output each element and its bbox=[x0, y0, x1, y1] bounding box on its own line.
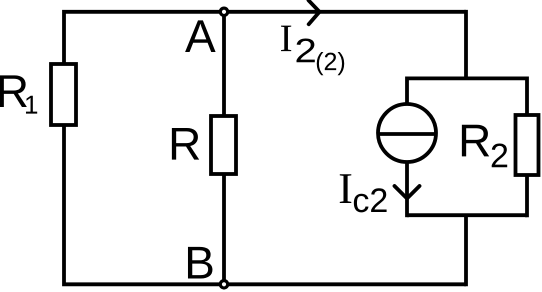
node label B bbox=[188, 247, 212, 279]
label R1 letter bbox=[0, 75, 27, 107]
label R2 subscript 2 bbox=[492, 143, 507, 167]
node B bbox=[220, 281, 227, 288]
label R2 letter bbox=[462, 125, 489, 157]
wire right vertical upper bbox=[464, 10, 468, 79]
label I2 letter I bbox=[281, 26, 291, 52]
arrow head current I2 on top wire bbox=[309, 0, 320, 24]
arrow head current Ic2 below source bbox=[395, 186, 420, 199]
label R1 subscript 1 bbox=[26, 96, 37, 114]
label I2 subscript 2 bbox=[297, 38, 315, 62]
wire middle branch A-B bbox=[222, 12, 226, 285]
label Ic2 letter I bbox=[340, 174, 352, 203]
wire right vertical lower bbox=[464, 215, 468, 286]
current source U1 circle bbox=[378, 104, 436, 162]
resistor R bbox=[211, 116, 236, 174]
wire subloop bottom bbox=[407, 213, 527, 217]
wire source stub bottom bbox=[405, 163, 409, 217]
label Ic2 subscript c2 bbox=[354, 194, 369, 213]
current source chord bbox=[378, 132, 436, 136]
label R bbox=[172, 128, 199, 160]
resistor R1 bbox=[51, 64, 76, 125]
wire source stub top bbox=[405, 77, 409, 104]
wire outer loop top-left-bottom bbox=[64, 12, 466, 285]
node label A bbox=[185, 20, 216, 52]
label I2 subsubscript (2) bbox=[317, 52, 324, 75]
wire subloop top bbox=[407, 77, 527, 81]
wire subloop right bbox=[525, 77, 529, 218]
node A bbox=[220, 8, 227, 15]
resistor R2 bbox=[516, 115, 539, 175]
